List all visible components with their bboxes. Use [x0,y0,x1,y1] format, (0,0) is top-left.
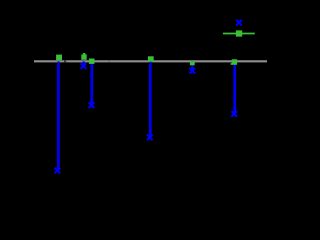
legend line+square entry [223,30,255,36]
square marker n=1 [56,55,62,61]
stem n=2 [83,61,85,66]
x-marker n=5 [190,68,196,74]
x-marker n=6 [231,111,237,117]
baseline dark notch 2 [109,60,111,62]
baseline dark notch 1 [64,60,66,62]
x-marker n=1 [55,168,61,174]
stem n=1 [57,61,59,169]
x-marker n=4 [147,135,153,141]
square marker n=5 [190,61,195,65]
baseline (gray zero line) [34,60,267,62]
square marker n=4 [148,56,154,62]
square marker n=2 (pentagon-like: square with top bump) [81,53,86,60]
square marker n=3 [89,59,95,64]
square marker n=6 (with lower-left foot) [231,59,238,65]
stem n=5 [191,61,193,71]
x-marker n=3 [89,102,95,108]
stem n=4 [149,61,151,136]
stem n=6 [233,61,236,112]
x-marker n=2 [81,63,87,69]
stem n=3 [90,61,93,104]
legend x-marker entry [236,20,242,26]
